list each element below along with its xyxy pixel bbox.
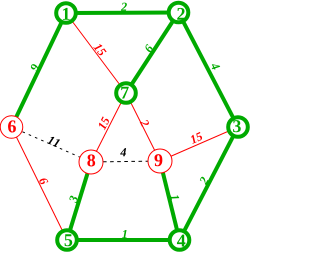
- wire thick green edge 4-9: [160, 161, 180, 240]
- label weight 3 on edge 5-8: [69, 196, 77, 204]
- label weight 2 on edge 3-4: [200, 177, 209, 185]
- wire thick green edge 5-8: [67, 162, 91, 240]
- node 9: [148, 149, 172, 173]
- label weight 4 on edge 8-9: [120, 148, 126, 156]
- label weight 15 on edge 3-9: [191, 132, 202, 144]
- node 2: [169, 3, 189, 23]
- wire thick green edge 1-2: [66, 11, 179, 16]
- label weight 1 on edge 4-9: [170, 195, 179, 200]
- wire thin red edge 7-8: [91, 93, 126, 162]
- wire thin red edge 1-7: [66, 13, 126, 93]
- label weight 9 on edge 1-6: [31, 64, 38, 72]
- node 3: [228, 117, 248, 137]
- node 6: [0, 116, 23, 139]
- wire thin red edge 5-6: [12, 127, 68, 240]
- label weight 6 on edge 2-7: [146, 44, 153, 52]
- label weight 2 on edge 1-2: [121, 3, 127, 11]
- label weight 2 on edge 7-9: [140, 120, 149, 127]
- label weight 1 on edge 4-5: [122, 230, 127, 238]
- wire thick green edge 1-6: [12, 13, 67, 127]
- wire thick green edge 3-4: [180, 127, 239, 240]
- node 5: [57, 230, 77, 250]
- wire thick green edge 2-7: [126, 13, 179, 94]
- node 7: [116, 83, 136, 103]
- node 4: [170, 230, 190, 250]
- wire dashed black edge 8-9: [103, 160, 148, 163]
- wire thin red edge 7-9: [126, 93, 160, 161]
- label weight 6 on edge 5-6: [39, 179, 48, 185]
- node 8: [79, 150, 103, 174]
- wire thick green edge 2-3: [179, 13, 239, 128]
- label weight 11 on edge 6-8: [47, 137, 60, 147]
- label weight 15 on edge 1-7: [93, 44, 106, 55]
- wire dashed black edge 6-8: [23, 132, 81, 157]
- wire thin red edge 3-9: [160, 127, 238, 161]
- label weight 15 on edge 7-8: [99, 116, 109, 130]
- label weight 4 on edge 2-3: [212, 64, 220, 69]
- node 1: [56, 3, 76, 23]
- wire thick green edge 4-5: [67, 238, 180, 242]
